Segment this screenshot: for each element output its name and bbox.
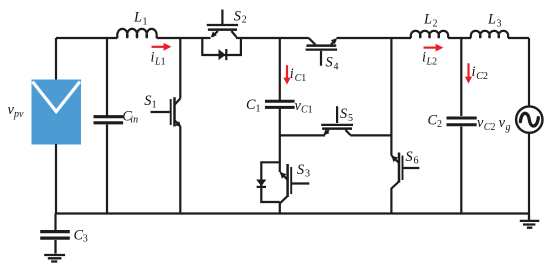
- capacitor C3: [40, 232, 70, 239]
- label C_in: [122, 108, 138, 125]
- label v_C2: [477, 115, 495, 133]
- svg-text:in: in: [130, 115, 138, 126]
- label i_L1: [151, 50, 166, 68]
- label v_g: [499, 115, 511, 133]
- svg-text:L2: L2: [426, 56, 438, 67]
- wire S3 emitter rail: [279, 203, 281, 214]
- label C3: [74, 228, 88, 245]
- svg-text:i: i: [422, 50, 426, 66]
- wire S1 collector rail: [179, 38, 181, 99]
- svg-text:2: 2: [433, 18, 438, 29]
- svg-text:1: 1: [152, 100, 157, 111]
- wire S6 emitter rail: [390, 188, 392, 214]
- label L1: [133, 10, 148, 28]
- label S6: [406, 149, 419, 166]
- label L2: [423, 12, 438, 30]
- wire top bus segment E (L2 to L3, node of C2): [448, 37, 471, 39]
- transistor S4 (IGBT, horizontal, gate down, in top bus): [306, 38, 338, 66]
- svg-text:C2: C2: [484, 122, 496, 133]
- wire top bus segment F (L3 to grid source): [508, 38, 529, 106]
- svg-text:L: L: [133, 10, 142, 26]
- diode D2 loop (anti-parallel with S2): [202, 38, 241, 55]
- transistor S6 (IGBT, gate right): [391, 153, 419, 189]
- svg-text:L: L: [423, 12, 432, 28]
- svg-text:C1: C1: [295, 73, 307, 84]
- wire left rail below PV: [55, 144, 57, 214]
- wire C2 rail upper: [460, 38, 462, 116]
- diode D3 loop (anti-parallel with S3): [261, 162, 280, 202]
- svg-text:3: 3: [305, 169, 310, 180]
- wire grid rail lower: [528, 133, 530, 214]
- svg-text:i: i: [472, 64, 476, 80]
- ground right: [520, 214, 540, 228]
- label S4: [326, 55, 339, 73]
- svg-text:i: i: [290, 66, 294, 82]
- svg-text:C: C: [428, 113, 438, 129]
- wire C1 rail middle (C1 to S5 bus and S3): [279, 109, 281, 173]
- svg-text:6: 6: [414, 155, 419, 166]
- svg-text:2: 2: [437, 119, 442, 130]
- wire mid bus left (C1 rail to S5): [280, 134, 325, 136]
- svg-text:L1: L1: [154, 56, 166, 67]
- capacitor C_in: [94, 117, 124, 123]
- diode D2: [219, 49, 227, 60]
- svg-text:2: 2: [242, 15, 247, 26]
- label S5: [340, 106, 353, 124]
- label S1: [144, 93, 156, 111]
- label C1: [246, 97, 261, 115]
- wire C2 rail lower: [460, 127, 462, 214]
- AC grid source v_g: [516, 106, 542, 132]
- label C2: [428, 113, 443, 131]
- wire S1 emitter rail: [179, 126, 181, 213]
- current arrow i_L2: [424, 44, 444, 52]
- svg-text:1: 1: [143, 16, 148, 27]
- wire C_in rail lower: [106, 125, 108, 214]
- svg-text:S: S: [234, 9, 241, 25]
- svg-text:S: S: [406, 149, 413, 165]
- inductor L1: [117, 29, 156, 38]
- svg-text:i: i: [151, 50, 155, 66]
- svg-text:C: C: [246, 97, 256, 113]
- wire C_in rail upper: [106, 38, 108, 116]
- wire left rail above PV: [55, 38, 57, 80]
- current arrow i_C1: [283, 65, 290, 84]
- current arrow i_L1: [152, 43, 172, 51]
- wire top bus segment D (S4 to L2): [337, 37, 412, 39]
- svg-text:C1: C1: [301, 105, 313, 116]
- label i_C2: [472, 64, 488, 82]
- inductor L3: [471, 31, 508, 38]
- svg-text:C2: C2: [476, 71, 488, 82]
- capacitor C2: [447, 118, 477, 125]
- svg-text:4: 4: [334, 61, 339, 72]
- svg-text:5: 5: [348, 113, 353, 124]
- wire top bus segment B (L1 to S2): [157, 37, 211, 39]
- label i_C1: [290, 66, 306, 84]
- wire top bus segment C (S2 to S4): [236, 37, 309, 39]
- svg-text:3: 3: [83, 234, 88, 245]
- transistor S1 (IGBT, gate left): [151, 97, 181, 127]
- wire C1 rail upper: [279, 38, 281, 100]
- svg-text:g: g: [506, 122, 511, 133]
- svg-text:S: S: [297, 162, 304, 178]
- wire C3 stub: [54, 214, 56, 231]
- svg-text:L: L: [487, 12, 496, 28]
- wire bottom bus: [56, 212, 530, 214]
- svg-text:S: S: [340, 106, 347, 122]
- label i_L2: [422, 50, 437, 68]
- label S2: [234, 9, 247, 26]
- PV source v_pv: [32, 80, 82, 145]
- svg-text:pv: pv: [13, 109, 24, 120]
- svg-text:3: 3: [497, 18, 502, 29]
- svg-text:S: S: [326, 55, 333, 71]
- label v_pv: [8, 102, 25, 120]
- transistor S3 (IGBT, gate right): [280, 164, 309, 203]
- current arrow i_C2: [465, 63, 472, 83]
- svg-text:S: S: [144, 93, 151, 109]
- label L3: [487, 12, 502, 30]
- transistor S5 (IGBT, horizontal, gate up, in mid bus): [321, 106, 353, 135]
- inductor L2: [411, 31, 448, 38]
- ground left: [44, 240, 65, 262]
- svg-text:1: 1: [256, 104, 261, 115]
- diode D3: [256, 180, 266, 187]
- label S3: [297, 162, 310, 180]
- capacitor C1: [265, 101, 295, 107]
- wire S6 rail upper: [390, 38, 392, 156]
- wire top bus segment A (PV node to L1): [56, 37, 118, 39]
- wire mid bus right (S5 to S6 rail): [350, 134, 391, 136]
- transistor S2 (IGBT, horizontal, gate up): [207, 10, 238, 38]
- label v_C1: [295, 98, 313, 116]
